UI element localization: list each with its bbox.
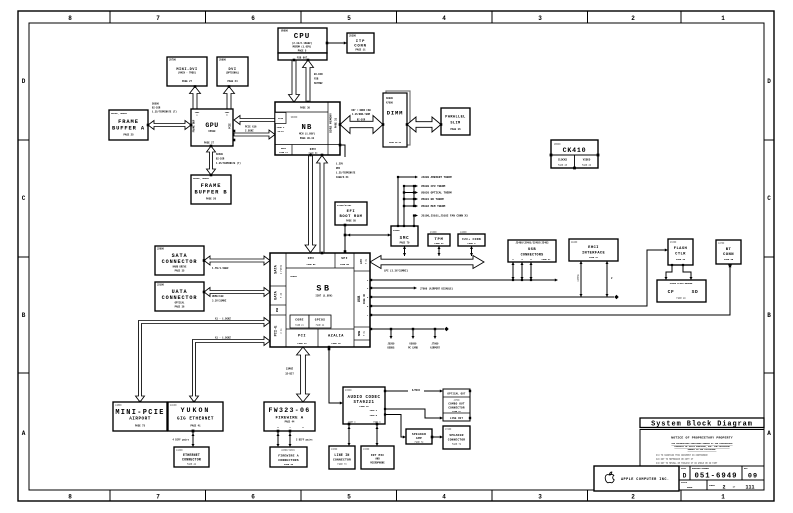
svg-text:2: 2 bbox=[722, 485, 725, 491]
svg-text:C: C bbox=[22, 195, 26, 202]
svg-text:USB: USB bbox=[276, 307, 279, 312]
svg-text:INTERFACE: INTERFACE bbox=[582, 251, 606, 255]
svg-text:2.5GHZ: 2.5GHZ bbox=[245, 130, 254, 133]
svg-text:AGREES TO THE FOLLOWING:: AGREES TO THE FOLLOWING: bbox=[688, 448, 717, 451]
svg-text:P 51: P 51 bbox=[363, 330, 366, 336]
svg-text:PORT B: PORT B bbox=[370, 414, 378, 417]
svg-text:PAGE 72: PAGE 72 bbox=[452, 443, 462, 446]
svg-text:J2800/J2801: J2800/J2801 bbox=[281, 448, 295, 451]
svg-text:X1 - 1.5GHZ: X1 - 1.5GHZ bbox=[215, 337, 231, 340]
svg-text:PCIE: PCIE bbox=[229, 123, 232, 129]
svg-text:A: A bbox=[767, 430, 771, 437]
svg-text:B: B bbox=[22, 312, 26, 319]
svg-text:U5500: U5500 bbox=[209, 130, 217, 133]
svg-text:15-23: 15-23 bbox=[277, 130, 284, 133]
svg-text:U1500 FLASH READER: U1500 FLASH READER bbox=[670, 282, 693, 285]
svg-text:1.35/TERMINATE (T): 1.35/TERMINATE (T) bbox=[216, 162, 241, 165]
svg-text:DIMM: DIMM bbox=[387, 110, 403, 117]
svg-text:PAGE 38: PAGE 38 bbox=[331, 342, 341, 345]
svg-text:PCIE X16: PCIE X16 bbox=[245, 126, 257, 129]
svg-text:PAGE 4: PAGE 4 bbox=[468, 242, 477, 245]
svg-text:(2) NOT TO REPRODUCE OR COPY I: (2) NOT TO REPRODUCE OR COPY IT bbox=[656, 458, 694, 461]
svg-text:PAGE 11: PAGE 11 bbox=[355, 49, 366, 52]
svg-text:GPU: GPU bbox=[205, 122, 218, 129]
svg-text:PAGE 72: PAGE 72 bbox=[415, 441, 424, 444]
svg-text:J5200: J5200 bbox=[388, 343, 396, 346]
svg-text:SCALE: SCALE bbox=[681, 481, 688, 484]
svg-text:5: 5 bbox=[347, 15, 351, 22]
svg-text:U1300/U1301: U1300/U1301 bbox=[337, 204, 352, 207]
svg-text:LINE OUT: LINE OUT bbox=[450, 417, 464, 420]
svg-text:PAGE 29: PAGE 29 bbox=[582, 164, 592, 167]
svg-text:PAGE 42: PAGE 42 bbox=[187, 463, 197, 466]
svg-text:8: 8 bbox=[68, 494, 72, 501]
svg-text:P 36: P 36 bbox=[280, 292, 283, 298]
svg-text:667 = DDR2 FSB: 667 = DDR2 FSB bbox=[351, 109, 371, 112]
svg-text:U4900: U4900 bbox=[393, 229, 400, 232]
svg-text:FRAME BUF: FRAME BUF bbox=[193, 119, 196, 132]
svg-text:PAGE 5: PAGE 5 bbox=[298, 49, 307, 52]
svg-text:3: 3 bbox=[538, 15, 542, 22]
svg-text:A: A bbox=[22, 430, 26, 437]
svg-text:DDR2 MEMORY: DDR2 MEMORY bbox=[330, 113, 333, 133]
svg-text:PAGE 75: PAGE 75 bbox=[135, 425, 146, 428]
svg-text:VIDEO: VIDEO bbox=[583, 159, 591, 162]
svg-text:FSB 667: FSB 667 bbox=[297, 56, 308, 59]
svg-text:DMI: DMI bbox=[308, 257, 315, 260]
svg-text:CONN: CONN bbox=[723, 253, 734, 257]
svg-text:EHCI: EHCI bbox=[588, 246, 599, 250]
svg-text:2 DIFF pairs: 2 DIFF pairs bbox=[296, 439, 313, 442]
svg-text:1.5V/1.5GHZ: 1.5V/1.5GHZ bbox=[212, 267, 229, 270]
svg-text:CF: CF bbox=[668, 289, 675, 295]
svg-text:1.25V: 1.25V bbox=[336, 163, 344, 166]
svg-text:(2.33/2.16GHZ): (2.33/2.16GHZ) bbox=[292, 42, 313, 45]
svg-text:1: 1 bbox=[721, 15, 725, 22]
svg-text:PAGE 30-33: PAGE 30-33 bbox=[300, 137, 315, 140]
svg-text:111: 111 bbox=[745, 485, 754, 491]
svg-text:(3) NOT TO REVEAL OR PUBLISH I: (3) NOT TO REVEAL OR PUBLISH IT IN WHOLE… bbox=[656, 462, 718, 465]
svg-text:CPU: CPU bbox=[294, 33, 311, 41]
svg-text:PAGE 41: PAGE 41 bbox=[190, 425, 201, 428]
svg-text:J2000: J2000 bbox=[157, 248, 165, 251]
svg-text:NONE: NONE bbox=[687, 486, 693, 489]
svg-text:PAGE 67: PAGE 67 bbox=[434, 242, 444, 245]
svg-text:FIREWIRE A: FIREWIRE A bbox=[278, 454, 299, 458]
svg-text:MCH (1.05V): MCH (1.05V) bbox=[299, 133, 315, 136]
svg-text:GIG ETHERNET: GIG ETHERNET bbox=[177, 417, 214, 422]
svg-text:LINE IN: LINE IN bbox=[334, 453, 349, 457]
svg-text:PAGE 73: PAGE 73 bbox=[337, 463, 347, 466]
svg-text:PAGE 24: PAGE 24 bbox=[227, 80, 238, 83]
svg-text:AUDIO CODEC: AUDIO CODEC bbox=[347, 396, 380, 400]
svg-text:J3800: J3800 bbox=[331, 447, 338, 450]
svg-text:USB: USB bbox=[528, 248, 536, 252]
svg-text:U5100, U5200: U5100, U5200 bbox=[111, 112, 127, 115]
svg-text:J5100,J5101,J5102 FAN CONN X3: J5100,J5101,J5102 FAN CONN X3 bbox=[421, 215, 468, 218]
svg-text:U5600: U5600 bbox=[554, 142, 561, 145]
svg-text:PAGE 46: PAGE 46 bbox=[284, 463, 294, 466]
svg-text:HARD DRIVE: HARD DRIVE bbox=[173, 266, 187, 269]
svg-text:FRAME: FRAME bbox=[201, 183, 222, 189]
svg-text:PAGE 70: PAGE 70 bbox=[400, 242, 410, 245]
svg-text:FSB: FSB bbox=[314, 78, 319, 81]
svg-text:PAGE 36: PAGE 36 bbox=[175, 306, 185, 309]
svg-text:PAGE 13: PAGE 13 bbox=[279, 151, 288, 154]
svg-text:SLIM: SLIM bbox=[450, 122, 460, 126]
svg-text:CONNECTORS: CONNECTORS bbox=[521, 254, 544, 258]
svg-text:6: 6 bbox=[251, 494, 255, 501]
svg-text:OPTICAL OUT: OPTICAL OUT bbox=[447, 393, 466, 396]
svg-text:BOOT ROM: BOOT ROM bbox=[339, 215, 362, 219]
svg-text:PAGE 47: PAGE 47 bbox=[542, 258, 551, 261]
svg-text:D: D bbox=[683, 473, 687, 480]
svg-text:1.25/TERMINATE: 1.25/TERMINATE bbox=[336, 172, 356, 175]
svg-text:MEROM (1.05V): MEROM (1.05V) bbox=[293, 46, 312, 49]
svg-text:SPI: SPI bbox=[341, 257, 348, 260]
svg-text:U5002 MEM THERM: U5002 MEM THERM bbox=[421, 205, 446, 208]
svg-text:X1 - 1.5GHZ: X1 - 1.5GHZ bbox=[215, 318, 231, 321]
svg-text:CAMERA: CAMERA bbox=[577, 274, 580, 282]
svg-text:CTLR: CTLR bbox=[675, 253, 686, 257]
svg-text:U1900: U1900 bbox=[430, 231, 437, 234]
svg-text:7: 7 bbox=[156, 15, 160, 22]
svg-text:PAGE 46: PAGE 46 bbox=[363, 294, 366, 304]
svg-text:U5000 CPU THERM: U5000 CPU THERM bbox=[421, 185, 446, 188]
svg-text:SD: SD bbox=[692, 289, 699, 295]
svg-text:J7400: J7400 bbox=[445, 427, 452, 430]
svg-text:SHEET: SHEET bbox=[709, 484, 716, 487]
svg-text:J7000 (AIRPORT DISABLE): J7000 (AIRPORT DISABLE) bbox=[420, 288, 454, 291]
svg-text:8: 8 bbox=[68, 15, 72, 22]
svg-text:A5000: A5000 bbox=[386, 97, 394, 100]
svg-text:MICROPHONE: MICROPHONE bbox=[370, 462, 385, 465]
svg-text:CONNECTOR: CONNECTOR bbox=[182, 458, 201, 462]
svg-text:NB: NB bbox=[301, 124, 312, 132]
svg-text:SMB: SMB bbox=[357, 331, 361, 337]
svg-text:4: 4 bbox=[442, 494, 446, 501]
svg-text:PCI-E: PCI-E bbox=[275, 325, 279, 337]
svg-text:System Block Diagram: System Block Diagram bbox=[651, 421, 753, 429]
svg-text:PAGE 25: PAGE 25 bbox=[123, 134, 134, 137]
svg-text:S/PDIF: S/PDIF bbox=[412, 389, 421, 392]
svg-text:P 51: P 51 bbox=[365, 258, 368, 264]
svg-text:FLASH: FLASH bbox=[674, 247, 688, 251]
svg-text:PARALLEL: PARALLEL bbox=[445, 116, 465, 120]
svg-text:PAGE 22: PAGE 22 bbox=[316, 324, 325, 327]
svg-text:BT: BT bbox=[726, 248, 732, 252]
svg-text:1.35/DDR-TERM: 1.35/DDR-TERM bbox=[352, 113, 371, 116]
svg-text:B: B bbox=[767, 312, 771, 319]
svg-text:AND: AND bbox=[375, 458, 380, 461]
svg-text:051-6949: 051-6949 bbox=[694, 473, 737, 481]
svg-text:3: 3 bbox=[538, 494, 542, 501]
svg-text:SMC: SMC bbox=[400, 237, 410, 241]
svg-text:2 PORTS: 2 PORTS bbox=[280, 264, 283, 274]
svg-text:J4700: J4700 bbox=[718, 241, 725, 244]
svg-text:PAGE 26: PAGE 26 bbox=[206, 198, 217, 201]
svg-text:S6500: S6500 bbox=[152, 103, 160, 106]
svg-text:LPC: LPC bbox=[359, 259, 363, 265]
svg-text:COMBO OUT: COMBO OUT bbox=[448, 403, 465, 406]
svg-text:PAGE 30-32: PAGE 30-32 bbox=[389, 141, 402, 144]
svg-text:OPTICAL: OPTICAL bbox=[175, 302, 185, 305]
svg-text:CORE: CORE bbox=[295, 319, 303, 322]
svg-text:CONNECTOR: CONNECTOR bbox=[162, 295, 198, 301]
svg-text:DEBUG: DEBUG bbox=[388, 347, 396, 350]
svg-text:SATA: SATA bbox=[275, 264, 279, 273]
svg-text:FRAME: FRAME bbox=[118, 119, 139, 125]
svg-text:C: C bbox=[767, 195, 771, 202]
svg-text:AZALIA: AZALIA bbox=[328, 335, 344, 339]
svg-text:(MAIN - TMDS): (MAIN - TMDS) bbox=[178, 72, 196, 75]
svg-text:SIZE: SIZE bbox=[681, 467, 687, 470]
svg-text:09: 09 bbox=[748, 473, 758, 481]
svg-text:(1) TO MAINTAIN THIS DOCUMENT: (1) TO MAINTAIN THIS DOCUMENT IN CONFIDE… bbox=[656, 454, 708, 457]
svg-text:J5800: J5800 bbox=[219, 59, 227, 62]
svg-text:4: 4 bbox=[442, 15, 446, 22]
svg-text:J4800 AMBIENT THERM: J4800 AMBIENT THERM bbox=[421, 176, 452, 179]
svg-text:AIRPORT: AIRPORT bbox=[129, 417, 151, 422]
svg-text:U5300, U5400: U5300, U5400 bbox=[193, 177, 209, 180]
svg-text:5: 5 bbox=[347, 494, 351, 501]
svg-text:PAGE 48: PAGE 48 bbox=[676, 258, 686, 261]
svg-text:U5020 OPTICAL THERM: U5020 OPTICAL THERM bbox=[421, 192, 452, 195]
svg-text:U6000: U6000 bbox=[291, 116, 298, 119]
svg-text:7: 7 bbox=[156, 494, 160, 501]
svg-text:U5001 HD THERM: U5001 HD THERM bbox=[421, 198, 444, 201]
svg-text:BUFFER B: BUFFER B bbox=[194, 190, 227, 196]
svg-text:PCIE: PCIE bbox=[278, 117, 284, 120]
svg-text:DMI: DMI bbox=[336, 167, 341, 170]
svg-text:SPEAKER: SPEAKER bbox=[412, 433, 426, 436]
svg-text:2: 2 bbox=[631, 15, 635, 22]
svg-text:NOTICE OF PROPRIETARY PROPERTY: NOTICE OF PROPRIETARY PROPERTY bbox=[671, 436, 733, 440]
svg-text:CK410: CK410 bbox=[563, 147, 587, 154]
svg-text:PAGE 28: PAGE 28 bbox=[558, 164, 568, 167]
svg-text:FW323-06: FW323-06 bbox=[268, 407, 310, 414]
svg-text:4 DIFF pairs: 4 DIFF pairs bbox=[172, 439, 189, 442]
svg-text:SB: SB bbox=[316, 284, 331, 294]
svg-text:PAGE 27: PAGE 27 bbox=[182, 80, 193, 83]
svg-text:EFI: EFI bbox=[347, 210, 356, 214]
svg-text:PAGE 44: PAGE 44 bbox=[285, 421, 295, 424]
svg-text:J4300: J4300 bbox=[176, 448, 183, 451]
svg-text:UATA: UATA bbox=[275, 290, 279, 299]
svg-text:LPC (3.3V/33MHZ): LPC (3.3V/33MHZ) bbox=[384, 270, 409, 273]
svg-text:J3700: J3700 bbox=[453, 398, 460, 401]
svg-text:PAGE 55: PAGE 55 bbox=[340, 263, 349, 266]
svg-text:A7000: A7000 bbox=[386, 102, 394, 105]
svg-text:2: 2 bbox=[631, 494, 635, 501]
svg-text:PAGE 55: PAGE 55 bbox=[346, 220, 356, 223]
svg-text:UDMA/100: UDMA/100 bbox=[212, 295, 224, 298]
svg-text:PCI: PCI bbox=[298, 335, 306, 339]
svg-text:CONNECTOR: CONNECTOR bbox=[333, 459, 351, 462]
svg-text:PAGE 21: PAGE 21 bbox=[295, 324, 304, 327]
svg-text:ITP: ITP bbox=[356, 40, 365, 44]
svg-text:PAGE 35: PAGE 35 bbox=[175, 270, 185, 273]
svg-text:PORT A: PORT A bbox=[370, 409, 378, 412]
svg-text:PAGE 36: PAGE 36 bbox=[450, 128, 461, 131]
svg-text:10GB/S X4: 10GB/S X4 bbox=[336, 176, 349, 179]
svg-text:J2100: J2100 bbox=[157, 284, 165, 287]
svg-text:NBSC: NBSC bbox=[281, 147, 287, 150]
svg-text:ETHERNET: ETHERNET bbox=[183, 453, 200, 457]
svg-text:CLOCKS: CLOCKS bbox=[558, 159, 568, 162]
svg-text:J5300: J5300 bbox=[349, 35, 357, 38]
svg-text:AIRPORT: AIRPORT bbox=[430, 347, 440, 350]
svg-text:PAGE 9: PAGE 9 bbox=[277, 126, 285, 129]
svg-text:U4100: U4100 bbox=[170, 403, 177, 406]
svg-text:BI-DIR: BI-DIR bbox=[357, 119, 366, 122]
svg-text:J7000: J7000 bbox=[432, 343, 440, 346]
svg-text:J5700: J5700 bbox=[169, 59, 177, 62]
svg-text:CONNECTOR: CONNECTOR bbox=[162, 259, 198, 265]
svg-text:BI-DIR: BI-DIR bbox=[314, 73, 323, 76]
svg-text:PAGE 37: PAGE 37 bbox=[452, 410, 461, 413]
svg-text:PAGE 30: PAGE 30 bbox=[300, 106, 310, 109]
svg-text:U1600: U1600 bbox=[670, 240, 677, 243]
svg-text:DRAWING NUMBER: DRAWING NUMBER bbox=[692, 467, 710, 470]
svg-text:33MHZ: 33MHZ bbox=[286, 368, 294, 371]
svg-text:USB: USB bbox=[358, 295, 362, 302]
svg-text:PAGE 47: PAGE 47 bbox=[589, 256, 598, 259]
svg-text:667MHZ: 667MHZ bbox=[314, 82, 323, 85]
svg-text:6: 6 bbox=[251, 15, 255, 22]
svg-text:U5000: U5000 bbox=[281, 30, 289, 33]
svg-text:PAGE 50: PAGE 50 bbox=[307, 263, 316, 266]
svg-text:PAGE 49: PAGE 49 bbox=[676, 297, 686, 300]
svg-text:3.3V/33MHZ: 3.3V/33MHZ bbox=[212, 300, 227, 303]
svg-text:2 X1: 2 X1 bbox=[280, 328, 283, 334]
svg-text:U2000: U2000 bbox=[290, 275, 297, 278]
svg-text:I2C+ CONN: I2C+ CONN bbox=[462, 238, 481, 241]
svg-text:PC CARD: PC CARD bbox=[408, 347, 418, 350]
svg-text:32-BIT: 32-BIT bbox=[285, 373, 294, 376]
svg-text:PAGE 39: PAGE 39 bbox=[359, 405, 369, 408]
svg-text:J4500: J4500 bbox=[115, 403, 122, 406]
svg-text:U3900: U3900 bbox=[345, 389, 352, 392]
svg-text:J3900: J3900 bbox=[363, 447, 370, 450]
svg-text:PAGE 31: PAGE 31 bbox=[335, 117, 338, 128]
svg-text:PAGE 45: PAGE 45 bbox=[724, 258, 734, 261]
svg-text:(OPTIONAL): (OPTIONAL) bbox=[226, 72, 240, 75]
svg-text:D: D bbox=[767, 78, 771, 85]
svg-text:D: D bbox=[22, 78, 26, 85]
svg-text:CONNECTORS: CONNECTORS bbox=[278, 458, 299, 462]
svg-text:CONNECTOR: CONNECTOR bbox=[448, 439, 465, 442]
svg-text:BI-DIR: BI-DIR bbox=[216, 158, 225, 161]
svg-text:ICH7 (1.05V): ICH7 (1.05V) bbox=[315, 295, 333, 298]
svg-text:1.35/TERMINATE (T): 1.35/TERMINATE (T) bbox=[152, 111, 177, 114]
svg-text:GPIOS: GPIOS bbox=[315, 319, 326, 322]
svg-text:APPLE COMPUTER INC.: APPLE COMPUTER INC. bbox=[621, 478, 669, 482]
svg-text:SPEAKER: SPEAKER bbox=[449, 434, 463, 437]
svg-text:YUKON: YUKON bbox=[181, 407, 211, 414]
svg-text:PAGE 27: PAGE 27 bbox=[204, 142, 215, 145]
svg-text:U2400: U2400 bbox=[571, 240, 578, 243]
svg-text:BI-DIR: BI-DIR bbox=[152, 107, 161, 110]
svg-text:S6500: S6500 bbox=[216, 153, 224, 156]
svg-text:PAGE 43: PAGE 43 bbox=[297, 342, 307, 345]
svg-text:BUFFER A: BUFFER A bbox=[112, 126, 145, 132]
svg-text:1: 1 bbox=[721, 494, 725, 501]
svg-text:U5050: U5050 bbox=[410, 343, 418, 346]
svg-text:J4900: J4900 bbox=[460, 231, 467, 234]
svg-text:J2400/J2401/J2402/J2403: J2400/J2401/J2402/J2403 bbox=[516, 241, 550, 244]
